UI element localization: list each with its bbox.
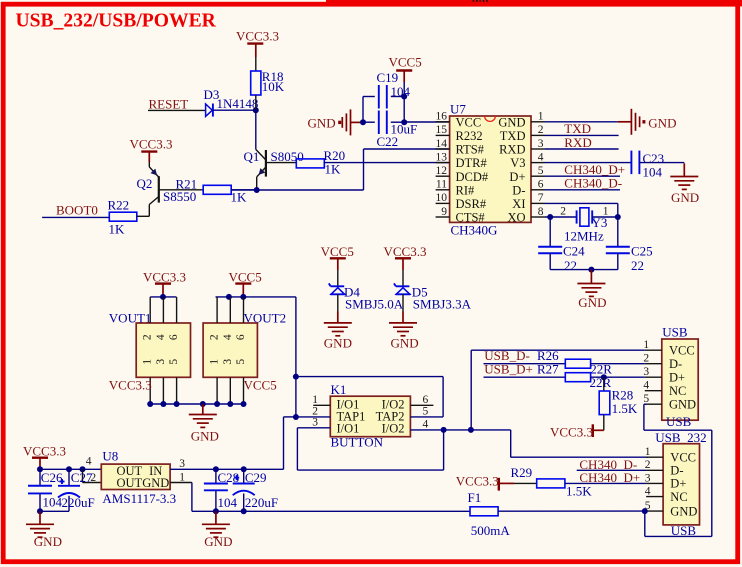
wire — [192, 508, 470, 524]
wire — [410, 394, 433, 406]
power VCC3.3 — [143, 270, 186, 297]
ground — [26, 524, 62, 549]
svg-text:DTR#: DTR# — [456, 156, 488, 170]
svg-text:VCC5: VCC5 — [244, 378, 277, 393]
svg-text:C22: C22 — [377, 134, 399, 149]
svg-text:4: 4 — [222, 334, 234, 340]
connector USB_232 — [645, 430, 707, 538]
wire — [250, 297, 299, 420]
svg-text:5: 5 — [168, 359, 180, 365]
svg-text:9: 9 — [441, 206, 447, 218]
ground — [670, 177, 699, 205]
node USB_D- — [484, 348, 566, 364]
svg-text:22: 22 — [564, 258, 577, 273]
svg-text:1.5K: 1.5K — [566, 484, 592, 499]
wire — [545, 162, 631, 164]
svg-text:USB_232: USB_232 — [655, 430, 706, 445]
svg-text:GND: GND — [308, 116, 336, 131]
svg-text:3: 3 — [222, 359, 234, 365]
svg-text:GND: GND — [498, 115, 525, 129]
wire — [170, 483, 192, 512]
svg-text:GND: GND — [670, 504, 697, 518]
svg-text:USB: USB — [662, 324, 688, 339]
svg-text:14: 14 — [436, 138, 448, 150]
svg-text:5: 5 — [423, 405, 429, 417]
svg-text:NC: NC — [670, 490, 687, 504]
power VCC5 — [389, 55, 422, 82]
svg-text:NC: NC — [669, 384, 686, 398]
svg-text:1: 1 — [142, 359, 154, 365]
svg-text:4: 4 — [538, 151, 544, 163]
svg-text:BUTTON: BUTTON — [331, 434, 384, 449]
ground — [202, 524, 233, 549]
svg-text:10: 10 — [436, 192, 448, 204]
svg-text:RXD: RXD — [564, 135, 591, 150]
svg-text:8: 8 — [538, 206, 544, 218]
svg-text:VCC3.3: VCC3.3 — [143, 270, 186, 285]
svg-text:2: 2 — [312, 405, 318, 417]
capacitor C42 — [58, 469, 95, 511]
svg-text:104: 104 — [218, 495, 238, 510]
wire — [360, 97, 366, 126]
fuse F1 — [468, 490, 511, 538]
svg-text:VCC5: VCC5 — [229, 270, 262, 285]
resistor R27 — [537, 361, 612, 390]
resistor R29 — [511, 465, 593, 499]
diode D3 — [204, 87, 259, 117]
svg-text:6: 6 — [168, 334, 180, 340]
power VCC3.3 — [384, 244, 427, 270]
svg-text:U8: U8 — [102, 448, 118, 463]
svg-text:DCD#: DCD# — [456, 170, 489, 184]
svg-text:220uF: 220uF — [245, 495, 278, 510]
svg-text:15: 15 — [436, 124, 448, 136]
svg-text:F1: F1 — [468, 490, 482, 505]
wire — [296, 405, 330, 417]
svg-text:VCC: VCC — [456, 115, 482, 129]
wire — [170, 417, 296, 472]
svg-text:USB_D+: USB_D+ — [484, 361, 533, 376]
svg-text:GND: GND — [324, 336, 352, 351]
svg-text:BOOT0: BOOT0 — [56, 203, 98, 218]
svg-text:6: 6 — [538, 179, 544, 191]
capacitor C28 — [204, 469, 239, 511]
svg-text:USB_232/USB/POWER: USB_232/USB/POWER — [16, 11, 217, 32]
svg-text:2: 2 — [643, 353, 649, 365]
svg-text:GND: GND — [669, 397, 696, 411]
svg-text:USB: USB — [666, 414, 692, 429]
svg-text:D-: D- — [670, 464, 683, 478]
power VCC5 — [229, 270, 262, 297]
svg-text:VCC5: VCC5 — [321, 244, 354, 259]
svg-text:1: 1 — [538, 111, 544, 123]
svg-text:12: 12 — [436, 165, 448, 177]
svg-text:C25: C25 — [631, 243, 653, 258]
wire — [326, 0, 742, 6]
transistor Q1 — [244, 110, 304, 190]
svg-text:4: 4 — [423, 418, 429, 430]
resistor R18 — [251, 57, 285, 110]
svg-text:K1: K1 — [331, 382, 347, 397]
svg-text:GND: GND — [204, 534, 232, 549]
wire — [498, 510, 646, 512]
svg-text:1K: 1K — [109, 222, 126, 237]
svg-text:VCC3.3: VCC3.3 — [456, 473, 499, 488]
svg-text:R22: R22 — [108, 198, 130, 213]
svg-text:RI#: RI# — [456, 183, 476, 197]
svg-text:11: 11 — [436, 179, 447, 191]
svg-text:4: 4 — [643, 380, 649, 392]
svg-text:D-: D- — [512, 183, 525, 197]
svg-text:1: 1 — [179, 471, 185, 483]
svg-text:VCC3.3: VCC3.3 — [23, 443, 66, 458]
power VCC3.3 — [550, 424, 604, 439]
svg-text:S8050: S8050 — [271, 149, 304, 164]
svg-text:VCC5: VCC5 — [389, 55, 422, 70]
svg-text:1K: 1K — [325, 162, 342, 177]
svg-text:GND: GND — [671, 190, 699, 205]
wire — [150, 401, 246, 414]
svg-text:1: 1 — [209, 359, 221, 365]
svg-text:3: 3 — [645, 472, 651, 484]
svg-text:GND: GND — [391, 336, 419, 351]
svg-text:2: 2 — [645, 459, 651, 471]
node CH340 D+ — [545, 162, 625, 177]
resistor R26 — [537, 348, 612, 377]
resistor R21 — [159, 176, 247, 204]
svg-text:TXD: TXD — [500, 129, 526, 143]
wire — [642, 508, 712, 536]
wire — [410, 418, 648, 457]
svg-text:V3: V3 — [510, 156, 525, 170]
wire — [401, 82, 449, 125]
svg-text:4: 4 — [86, 455, 92, 467]
svg-text:6: 6 — [235, 334, 247, 340]
svg-text:C29: C29 — [245, 470, 267, 485]
capacitor C25 — [606, 217, 653, 273]
svg-text:VCC: VCC — [670, 450, 696, 464]
ground — [577, 284, 606, 311]
node RESET — [148, 96, 206, 111]
transistor Q2 — [137, 162, 197, 216]
svg-text:U7: U7 — [450, 101, 466, 116]
capacitor C19 — [363, 70, 411, 109]
svg-text:XI: XI — [512, 197, 525, 211]
svg-text:RESET: RESET — [149, 96, 189, 111]
power VCC3.3 — [23, 443, 66, 469]
svg-text:OUT: OUT — [117, 476, 143, 490]
svg-text:VCC3.3: VCC3.3 — [109, 378, 152, 393]
wire — [545, 121, 631, 123]
svg-text:SMBJ5.0A: SMBJ5.0A — [345, 297, 404, 312]
button K1 — [330, 382, 410, 449]
svg-text:CH340G: CH340G — [451, 223, 498, 238]
svg-text:R27: R27 — [537, 361, 559, 376]
wire — [545, 203, 618, 217]
svg-text:GND: GND — [34, 534, 62, 549]
resistor R22 — [108, 198, 150, 237]
wire — [231, 149, 449, 190]
svg-text:3: 3 — [643, 366, 649, 378]
ground — [189, 415, 219, 444]
wire — [37, 508, 69, 524]
diode D4 — [329, 270, 404, 312]
svg-text:16: 16 — [436, 111, 448, 123]
op-amp U7 — [436, 101, 546, 237]
capacitor C29 — [233, 469, 278, 511]
svg-text:C24: C24 — [563, 243, 585, 258]
svg-text:R232: R232 — [456, 129, 483, 143]
svg-text:DSR#: DSR# — [456, 197, 487, 211]
svg-text:6: 6 — [423, 394, 429, 406]
power VCC5 — [321, 244, 354, 270]
node TXD — [545, 121, 619, 136]
svg-text:500mA: 500mA — [471, 523, 511, 538]
wire — [545, 214, 577, 220]
title — [16, 11, 217, 32]
svg-text:VCC3.3: VCC3.3 — [384, 244, 427, 259]
ground — [308, 109, 364, 135]
node CH340 D- — [577, 457, 646, 472]
svg-text:1: 1 — [645, 446, 651, 458]
svg-text:GND: GND — [648, 116, 676, 131]
wire — [37, 466, 101, 472]
svg-text:3: 3 — [538, 138, 544, 150]
ground — [631, 109, 676, 135]
node RXD — [545, 135, 619, 150]
diode D5 — [394, 270, 472, 312]
svg-text:GND: GND — [578, 295, 606, 310]
svg-text:GND: GND — [142, 476, 169, 490]
capacitor C24 — [538, 217, 585, 273]
svg-text:1N4148: 1N4148 — [217, 96, 259, 111]
svg-text:12MHz: 12MHz — [564, 228, 604, 243]
capacitor C23 — [631, 151, 664, 180]
wire — [213, 107, 259, 113]
svg-text:3: 3 — [179, 458, 185, 470]
svg-text:XO: XO — [507, 211, 525, 225]
ground — [324, 323, 352, 351]
svg-text:D+: D+ — [509, 170, 525, 184]
capacitor C22 — [363, 111, 417, 150]
node Q1 emitter junction — [254, 187, 260, 193]
svg-text:5: 5 — [538, 165, 544, 177]
node USB_D+ — [484, 361, 566, 377]
svg-text:C27: C27 — [71, 470, 93, 485]
svg-text:1.5K: 1.5K — [612, 401, 638, 416]
svg-text:5: 5 — [643, 393, 649, 405]
svg-text:2: 2 — [209, 334, 221, 340]
svg-text:C19: C19 — [377, 70, 399, 85]
node CH340 D- — [545, 176, 622, 191]
connector VOUT1 — [109, 294, 191, 407]
svg-text:VCC3.3: VCC3.3 — [550, 424, 593, 439]
power VCC3.3 — [456, 473, 514, 490]
svg-text:5: 5 — [235, 359, 247, 365]
wire — [312, 394, 330, 406]
svg-text:VCC: VCC — [669, 343, 695, 357]
svg-text:C26: C26 — [41, 470, 63, 485]
wire — [402, 312, 404, 323]
svg-text:AMS1117-3.3: AMS1117-3.3 — [102, 491, 176, 506]
svg-text:104: 104 — [643, 164, 663, 179]
wire — [231, 189, 257, 191]
svg-text:7: 7 — [538, 192, 544, 204]
capacitor C26 — [28, 469, 63, 511]
wire — [550, 267, 618, 283]
resistor R28 — [599, 377, 638, 430]
regulator U8 — [86, 448, 185, 506]
svg-text:SMBJ3.3A: SMBJ3.3A — [413, 297, 472, 312]
wire — [639, 163, 684, 176]
svg-text:2: 2 — [142, 334, 154, 340]
svg-text:3: 3 — [312, 417, 318, 429]
svg-text:GND: GND — [191, 429, 219, 444]
svg-text:RTS#: RTS# — [456, 143, 485, 157]
power VCC3.3 — [236, 29, 279, 57]
wire — [297, 417, 443, 471]
connector USB — [643, 324, 698, 429]
svg-text:1K: 1K — [231, 189, 248, 204]
wire — [591, 374, 645, 380]
wire — [591, 363, 645, 365]
wire — [471, 350, 645, 430]
svg-text:22: 22 — [631, 258, 644, 273]
svg-text:R21: R21 — [176, 176, 198, 191]
wire — [83, 469, 102, 482]
resistor R20 — [266, 148, 345, 177]
svg-text:4: 4 — [645, 486, 651, 498]
crystal Y3 — [560, 205, 609, 243]
power VCC3.3 — [130, 137, 173, 162]
svg-text:Q2: Q2 — [137, 176, 153, 191]
svg-text:2: 2 — [560, 205, 566, 217]
svg-text:VCC3.3: VCC3.3 — [130, 137, 173, 152]
svg-text:2: 2 — [538, 124, 544, 136]
svg-text:104: 104 — [391, 84, 411, 99]
svg-text:1: 1 — [312, 394, 318, 406]
svg-text:RXD: RXD — [499, 143, 525, 157]
svg-text:D+: D+ — [669, 370, 685, 384]
svg-text:220uF: 220uF — [62, 495, 95, 510]
node BOOT0 — [42, 203, 109, 218]
wire — [592, 214, 621, 220]
svg-text:4: 4 — [155, 334, 167, 340]
wire — [644, 404, 712, 536]
svg-text:D-: D- — [669, 357, 682, 371]
node CH340 D+ — [565, 470, 646, 485]
svg-text:D+: D+ — [670, 477, 686, 491]
svg-text:3: 3 — [155, 359, 167, 365]
svg-text:CH340_D-: CH340_D- — [564, 176, 622, 191]
svg-text:I/O1: I/O1 — [337, 421, 360, 435]
svg-text:1: 1 — [643, 339, 649, 351]
svg-text:Q1: Q1 — [244, 149, 260, 164]
svg-text:I/O2: I/O2 — [382, 421, 405, 435]
svg-text:10K: 10K — [262, 79, 285, 94]
svg-text:VCC3.3: VCC3.3 — [236, 29, 279, 44]
wire — [296, 377, 443, 418]
ground — [389, 323, 419, 351]
svg-text:R29: R29 — [511, 465, 533, 480]
connector VOUT2 — [203, 294, 286, 407]
wire — [337, 312, 339, 323]
svg-text:13: 13 — [436, 151, 448, 163]
wire — [324, 162, 449, 164]
